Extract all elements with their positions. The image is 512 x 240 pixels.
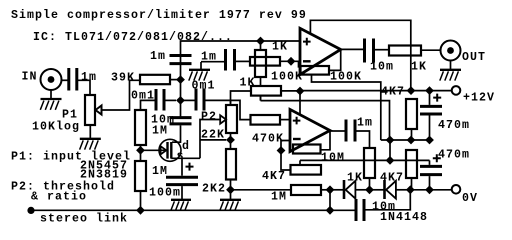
- resistor R7 470K: [251, 115, 281, 125]
- wire C8 top: [429, 160, 431, 165]
- U1A plus sign: [303, 38, 311, 46]
- resistor R12 1M lower: [135, 161, 146, 191]
- wire R11 bottom to gate node: [140, 145, 142, 150]
- C10 plus sign: [186, 163, 194, 171]
- wire R3 to op-amp1 minus: [280, 60, 300, 62]
- wire P2 bottom to junction: [230, 133, 232, 140]
- wire C7 bottom: [429, 116, 431, 141]
- wire P2 top crossing: [230, 100, 232, 105]
- resistor R8 4K7: [291, 165, 322, 175]
- wire node A to node B: [180, 80, 182, 101]
- wire gate node to R12: [140, 150, 142, 161]
- wire C7 top: [429, 91, 431, 105]
- +12V terminal: [452, 86, 461, 95]
- P2 bottom junction: [226, 136, 235, 145]
- capacitor C10 100m electrolytic: [166, 177, 198, 184]
- junction rail/C7: [425, 86, 434, 95]
- resistor R1 39K: [140, 75, 170, 84]
- wire R14 to output: [321, 131, 331, 150]
- svg-text:1m: 1m: [201, 51, 217, 64]
- wire J1 to C1: [62, 79, 69, 81]
- resistor R10 4K7 lower: [406, 150, 417, 178]
- Q1 gate wire with arrow: [141, 146, 167, 154]
- svg-text:s: s: [177, 150, 185, 163]
- svg-text:& ratio: & ratio: [31, 191, 87, 204]
- svg-text:1m: 1m: [81, 71, 97, 84]
- capacitor C9 10m electrolytic: [170, 118, 192, 124]
- wire D2 to 0V junction: [396, 189, 410, 191]
- svg-text:22K: 22K: [201, 129, 225, 142]
- junction link node: [326, 185, 335, 194]
- wire wiper branch to P2 bottom: [200, 139, 226, 141]
- wire node A up to C2: [180, 55, 182, 80]
- bias wire horizontal: [381, 139, 430, 141]
- wire R5 bottom tap to bias: [312, 75, 381, 140]
- svg-text:1K: 1K: [411, 61, 427, 74]
- output connector J2: [441, 41, 461, 61]
- wire C8 bottom: [429, 176, 431, 190]
- svg-text:1m: 1m: [150, 50, 166, 63]
- svg-text:4K7: 4K7: [262, 170, 286, 183]
- P2 wiper arrow: [220, 115, 226, 123]
- ground for C3: [189, 62, 210, 81]
- wire C10 bottom to ground: [181, 186, 183, 199]
- op-amp U1B triangle: [290, 109, 330, 151]
- node B junction: [176, 96, 185, 105]
- junction R13/1M wire: [226, 185, 235, 194]
- wire R1 to node A: [170, 79, 181, 81]
- svg-text:1K: 1K: [347, 172, 363, 185]
- op-amp U1A triangle: [300, 28, 341, 74]
- ground under R13: [220, 200, 241, 211]
- svg-text:stereo link: stereo link: [40, 213, 128, 226]
- wire node B to C6: [181, 99, 196, 101]
- wire R9 to bias wire: [411, 129, 413, 140]
- wire R15 node to D2: [370, 189, 385, 191]
- capacitor C12 10m: [356, 199, 364, 221]
- diode D1 1N4148: [344, 180, 355, 199]
- diode D2 1N4148: [385, 180, 396, 199]
- C8 plus sign: [433, 154, 441, 162]
- svg-text:1K: 1K: [240, 77, 256, 90]
- wire C9 bottom to JFET drain: [172, 125, 181, 142]
- wire U1A output: [341, 48, 364, 50]
- svg-text:1M: 1M: [152, 125, 168, 138]
- resistor R4 1K: [251, 86, 281, 96]
- svg-text:1K: 1K: [272, 41, 288, 54]
- wire link node to D1: [330, 189, 343, 191]
- svg-text:P1: input level: P1: input level: [11, 151, 131, 164]
- wire gnd to C3: [201, 61, 224, 63]
- svg-text:39K: 39K: [111, 72, 135, 85]
- wire P2 to R4: [231, 91, 252, 104]
- P2 function text: [11, 181, 115, 204]
- junction R15/diodes: [365, 185, 374, 194]
- junction bias/tap: [386, 136, 395, 145]
- resistor R9 4K7 upper: [406, 99, 417, 129]
- capacitor C1 1m input: [69, 68, 77, 91]
- wire P1 bottom to ground: [89, 125, 91, 139]
- wire junction to R13: [230, 140, 232, 149]
- svg-text:470m: 470m: [438, 119, 470, 132]
- resistor R2 1K vertical: [255, 50, 266, 77]
- capacitor C8 470m electrolytic: [420, 166, 442, 174]
- capacitor C2 1m feedback: [170, 56, 192, 64]
- wire R13 junction to R16: [231, 189, 292, 191]
- svg-text:470K: 470K: [252, 133, 284, 146]
- svg-text:Simple compressor/limiter 1977: Simple compressor/limiter 1977 rev 99: [11, 9, 307, 22]
- junction R12/stereo: [136, 206, 145, 215]
- capacitor C11 1m: [346, 120, 355, 142]
- JFET types text: [80, 160, 128, 182]
- resistor R13 2K2: [226, 149, 236, 180]
- resistor R6 1K output: [389, 46, 421, 56]
- wire D1 to R15 node: [355, 189, 369, 191]
- resistor R14 10M feedback: [293, 145, 321, 154]
- svg-text:IN: IN: [22, 71, 38, 84]
- svg-text:10Klog: 10Klog: [32, 121, 80, 134]
- ground under J1: [40, 90, 61, 110]
- svg-text:OUT: OUT: [462, 51, 486, 64]
- svg-text:1M: 1M: [152, 165, 168, 178]
- wire junction down to op-amp2 plus: [299, 91, 301, 114]
- ground under P1: [80, 139, 101, 150]
- input connector J1: [41, 69, 62, 90]
- capacitor C5 0m1: [156, 89, 164, 111]
- stereo link terminal: [27, 207, 34, 214]
- wire minus node down to R5: [299, 61, 301, 67]
- ground under C10: [171, 200, 191, 211]
- gate node junction: [136, 146, 145, 155]
- U1B plus sign: [293, 117, 301, 125]
- JFET Q1: [159, 139, 181, 161]
- junction D2/C12: [406, 185, 415, 194]
- ground under J2: [440, 61, 461, 81]
- wire P1 wiper to R1: [102, 80, 141, 110]
- capacitor C4 10m output: [365, 39, 374, 63]
- resistor R11 1M upper: [135, 110, 146, 145]
- Q1 source wire: [171, 157, 200, 159]
- wire R4 bottom tap to bias node: [261, 96, 390, 140]
- svg-text:4K7: 4K7: [381, 86, 405, 99]
- wire R13 bottom: [230, 180, 232, 200]
- svg-text:IC: TL071/072/081/082/...: IC: TL071/072/081/082/...: [33, 31, 233, 44]
- svg-text:10M: 10M: [321, 152, 345, 165]
- P1 wiper arrow: [96, 106, 102, 115]
- svg-text:100K: 100K: [271, 71, 303, 84]
- wire R10 bottom: [411, 178, 413, 190]
- wire C5 right to node B: [164, 99, 176, 101]
- wire R7 to op-amp2 plus: [280, 119, 290, 121]
- wire R15 bottom to diode node: [369, 178, 371, 190]
- wire C3 to R3: [236, 60, 250, 62]
- svg-text:2K2: 2K2: [202, 183, 226, 196]
- P2 wiper wire: [200, 120, 220, 159]
- resistor R5 100K feedback: [301, 66, 330, 75]
- wire minus node to R8: [281, 151, 291, 171]
- wire R12 bottom to stereo wire: [140, 191, 142, 210]
- wire link node vertical: [329, 190, 331, 211]
- capacitor C3 1m: [226, 49, 235, 71]
- potentiometer P1 body: [85, 95, 95, 125]
- junction minus node: [287, 57, 296, 66]
- U1A minus sign: [303, 60, 311, 62]
- svg-text:P2: P2: [201, 111, 217, 124]
- stereo link wire: [31, 209, 356, 211]
- wire C6 right to 470K corner: [204, 100, 251, 119]
- wire source to C10: [181, 158, 183, 175]
- wire R16 to link junction: [321, 189, 330, 191]
- resistor R15 4K7 vertical: [364, 148, 375, 178]
- wire C1 to P1 top: [77, 80, 90, 95]
- wire lower bias tap to R8: [299, 160, 301, 165]
- wire output down to R5: [329, 49, 341, 70]
- wire rail junction to +12V: [300, 90, 452, 92]
- resistor R16 1M: [291, 185, 321, 195]
- potentiometer P2 body: [226, 105, 237, 133]
- resistor R3 100K: [250, 57, 280, 66]
- wire bias down: [389, 140, 391, 160]
- 0V terminal: [452, 185, 461, 194]
- U1A feedback wire top: [310, 20, 410, 90]
- U1B minus sign: [293, 138, 301, 140]
- wire C2 up and to op-amp1 plus input: [181, 41, 301, 55]
- wire node B down to C9: [180, 100, 182, 116]
- C7 plus sign: [433, 94, 441, 102]
- junction lower bias: [386, 156, 395, 165]
- wire C12 right to D2 junction: [365, 190, 410, 210]
- junction stereo/link node: [326, 206, 335, 215]
- svg-text:100m: 100m: [149, 187, 181, 200]
- minus node junction: [277, 146, 286, 155]
- wire C5 left to R11: [141, 100, 157, 110]
- svg-text:+12V: +12V: [463, 92, 495, 105]
- junction R4/op2: [296, 87, 305, 96]
- U1B minus wire: [281, 141, 290, 151]
- wire R6 to OUT jack: [421, 49, 440, 51]
- node A junction: [176, 75, 185, 84]
- junction on plus wire: [256, 37, 265, 46]
- junction bias/C7: [425, 136, 434, 145]
- svg-text:1M: 1M: [271, 191, 287, 204]
- wire junction down to R2: [260, 41, 262, 50]
- svg-text:1m: 1m: [357, 117, 373, 130]
- junction bias/R9: [407, 136, 416, 145]
- svg-text:10m: 10m: [372, 201, 396, 214]
- wire C11 to R15: [355, 131, 370, 148]
- svg-text:470m: 470m: [438, 149, 470, 162]
- junction C8/0V: [425, 185, 434, 194]
- wire junction to 0V terminal: [410, 189, 451, 191]
- lower bias wire: [300, 159, 430, 161]
- svg-text:0V: 0V: [462, 192, 478, 205]
- junction rail/R9: [407, 86, 416, 95]
- capacitor C7 470m electrolytic: [420, 106, 442, 114]
- U1B output wire: [330, 130, 345, 132]
- wire C4 to R6: [374, 49, 390, 51]
- wire R4 to rail junction: [281, 90, 300, 92]
- svg-text:10m: 10m: [370, 61, 394, 74]
- wire R2 bottom toward R4: [260, 77, 262, 101]
- capacitor C6 0m1: [196, 89, 204, 111]
